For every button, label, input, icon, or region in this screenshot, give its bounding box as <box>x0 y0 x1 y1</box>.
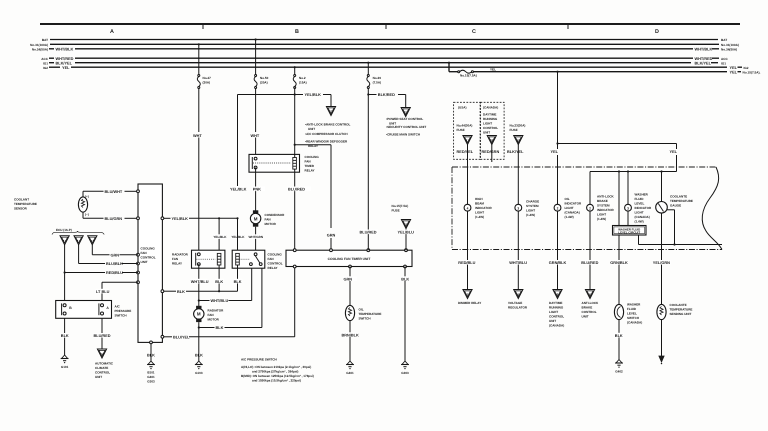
svg-text:WHT/BLU: WHT/BLU <box>191 280 209 284</box>
svg-text:FLUID: FLUID <box>627 307 637 311</box>
fuse No.29(7.5A) <box>367 62 381 89</box>
svg-text:BLK: BLK <box>147 354 155 358</box>
svg-text:CLIMATE: CLIMATE <box>95 366 108 370</box>
cooling fan timer relay box <box>249 154 300 172</box>
svg-text:G402: G402 <box>615 369 623 373</box>
svg-text:(20A): (20A) <box>203 81 211 85</box>
svg-text:YEL/BLK: YEL/BLK <box>172 217 189 221</box>
svg-text:•SECURITY CONTROL UNIT: •SECURITY CONTROL UNIT <box>386 125 426 129</box>
svg-text:3: 3 <box>627 206 629 210</box>
svg-text:CHARGE: CHARGE <box>526 199 539 203</box>
svg-text:COOLANT: COOLANT <box>14 198 29 202</box>
svg-text:BLK: BLK <box>61 334 69 338</box>
cooling fan control unit box <box>137 184 164 344</box>
svg-text:2: 2 <box>557 206 559 210</box>
svg-text:WHT/RED: WHT/RED <box>56 57 74 61</box>
svg-text:(CANADA): (CANADA) <box>483 105 498 109</box>
svg-text:DIMMER RELAY: DIMMER RELAY <box>458 301 481 305</box>
wire PNK timer relay to condenser fan motor <box>252 168 265 212</box>
svg-text:BLU/RED: BLU/RED <box>360 231 377 235</box>
svg-text:BLK/YEL: BLK/YEL <box>56 61 73 65</box>
svg-text:CONDENSOR: CONDENSOR <box>265 213 286 217</box>
wire WHT/BLU charge light to voltage regulator <box>509 211 528 298</box>
svg-text:GRN/BLK: GRN/BLK <box>549 261 567 265</box>
svg-text:YEL: YEL <box>62 66 70 70</box>
connector 11 <box>326 107 335 116</box>
wire YEL branch to gauge feed <box>558 144 678 172</box>
svg-text:(1.4W): (1.4W) <box>635 220 644 224</box>
wire GRN/BLK oil light to daytime running light control unit <box>549 211 568 298</box>
svg-text:A(HI,LO) :ON between 210kpa (2: A(HI,LO) :ON between 210kpa (2.1kg/cm² ,… <box>241 365 311 369</box>
svg-text:FAN: FAN <box>265 218 271 222</box>
svg-text:11: 11 <box>329 110 333 114</box>
svg-text:LIGHT: LIGHT <box>597 213 606 217</box>
svg-text:BLU/YEL: BLU/YEL <box>173 335 190 339</box>
svg-text:YEL: YEL <box>670 150 678 154</box>
svg-text:(1.4W): (1.4W) <box>565 215 574 219</box>
wire YEL to right edge <box>473 67 760 74</box>
dashed box (USA) daytime fuse <box>454 102 481 159</box>
svg-text:GRN: GRN <box>327 234 336 238</box>
wire GRN timer unit to oil temperature switch <box>343 267 357 306</box>
svg-text:GRN: GRN <box>344 277 353 281</box>
a/c pressure switch box <box>56 301 112 319</box>
svg-text:CONTROL: CONTROL <box>582 310 597 314</box>
svg-text:RADIATOR: RADIATOR <box>208 309 225 313</box>
washer fluid level circuit box <box>613 172 647 236</box>
svg-text:WHT/BLK: WHT/BLK <box>695 47 713 51</box>
svg-text:WHT: WHT <box>251 134 260 138</box>
svg-text:RELAY: RELAY <box>268 266 278 270</box>
svg-text:COOLING FAN TIMER UNIT: COOLING FAN TIMER UNIT <box>328 257 371 261</box>
bus ACC WHT/RED <box>41 57 728 61</box>
svg-text:BLU/GRN: BLU/GRN <box>105 217 123 221</box>
svg-text:FUSE: FUSE <box>457 128 465 132</box>
cooling fan control relay box <box>232 250 265 268</box>
header rule <box>40 23 740 25</box>
svg-text:RUNNING: RUNNING <box>483 117 498 121</box>
svg-text:LEVEL: LEVEL <box>635 202 645 206</box>
svg-text:BLK/YEL: BLK/YEL <box>695 61 712 65</box>
svg-text:INDICATOR: INDICATOR <box>635 206 652 210</box>
svg-text:GRN: GRN <box>111 253 120 257</box>
svg-text:No.23(30A): No.23(30A) <box>510 123 526 127</box>
svg-text:BLU/RED: BLU/RED <box>581 261 598 265</box>
label cooling fan control unit <box>141 247 156 265</box>
svg-text:No.15(7.5A): No.15(7.5A) <box>392 204 409 208</box>
fuse No.50(20A) <box>254 38 269 88</box>
svg-text:LEVEL: LEVEL <box>627 312 637 316</box>
svg-text:3: 3 <box>517 206 519 210</box>
svg-text:No.2: No.2 <box>299 76 306 80</box>
svg-text:G101: G101 <box>61 365 69 369</box>
svg-text:RELAY: RELAY <box>172 262 182 266</box>
wire WHT/BLU to control relay contact <box>199 268 252 303</box>
svg-text:TEMPERATURE: TEMPERATURE <box>14 202 37 206</box>
svg-text:RED/BLU: RED/BLU <box>458 261 475 265</box>
svg-text:15: 15 <box>404 223 408 227</box>
svg-text:B101: B101 <box>147 370 155 374</box>
svg-text:BLK/YEL: BLK/YEL <box>507 150 524 154</box>
svg-text:No.15(7.5A): No.15(7.5A) <box>460 74 477 78</box>
svg-text:TEMPERATURE: TEMPERATURE <box>359 312 382 316</box>
svg-text:BEAM: BEAM <box>475 202 484 206</box>
label coolant temperature sensor <box>14 198 37 211</box>
wire YEL/BLK horizontal <box>238 88 332 187</box>
svg-text:HIGH: HIGH <box>475 197 483 201</box>
svg-text:(1.4W): (1.4W) <box>475 215 484 219</box>
wire BLU/RED timer relay coil to timer unit <box>287 169 311 250</box>
svg-text:DAYTIME: DAYTIME <box>549 301 562 305</box>
svg-text:ANTI-LOCK: ANTI-LOCK <box>582 301 600 305</box>
svg-text:LEVEL CIRCUIT: LEVEL CIRCUIT <box>618 231 640 235</box>
ECU (16-P) connectors <box>52 228 104 245</box>
svg-text:COOLANTE: COOLANTE <box>670 194 687 198</box>
svg-text:COOLING: COOLING <box>268 253 283 257</box>
svg-text:2: 2 <box>589 206 591 210</box>
svg-text:BLK: BLK <box>177 290 185 294</box>
wire BLK to ground G103 <box>195 350 203 375</box>
svg-text:CONTROL: CONTROL <box>95 371 110 375</box>
svg-text:UNIT: UNIT <box>141 260 148 264</box>
svg-text:WHT/BLU: WHT/BLU <box>509 261 527 265</box>
svg-text:BLU/RED: BLU/RED <box>94 334 111 338</box>
svg-text:YEL: YEL <box>730 70 738 74</box>
svg-text:SENSOR: SENSOR <box>14 207 28 211</box>
charge system light <box>515 168 522 211</box>
svg-text:No.47: No.47 <box>203 76 212 80</box>
svg-text:WHT/BLU: WHT/BLU <box>211 299 229 303</box>
bus IG2 YEL <box>43 66 749 70</box>
wire BLK radiator relay coil down <box>215 265 224 292</box>
wire YEL/BLK long vertical to control relay coil <box>230 187 247 240</box>
svg-text:19: 19 <box>517 139 521 143</box>
svg-text:C: C <box>472 29 476 35</box>
svg-text:No.34(50A): No.34(50A) <box>721 47 737 51</box>
svg-text:RED/YEL: RED/YEL <box>457 150 474 154</box>
svg-text:(CANADA): (CANADA) <box>635 215 650 219</box>
svg-text:(15A): (15A) <box>299 81 307 85</box>
svg-text:MOTOR: MOTOR <box>265 222 277 226</box>
svg-text:•REAR WINDOW DEFOGGER: •REAR WINDOW DEFOGGER <box>305 139 348 143</box>
svg-text:G303: G303 <box>147 379 155 383</box>
svg-text:FUSE: FUSE <box>510 128 518 132</box>
svg-text:and 1550kpa (15.5kg/cm² , 220p: and 1550kpa (15.5kg/cm² , 220psi) <box>252 378 301 382</box>
svg-text:TEMPERATURE: TEMPERATURE <box>670 308 693 312</box>
svg-text:•CRUISE MAIN SWITCH: •CRUISE MAIN SWITCH <box>386 133 420 137</box>
svg-text:BLK: BLK <box>234 280 242 284</box>
svg-text:RUNNING: RUNNING <box>549 306 564 310</box>
svg-text:No.31(100A): No.31(100A) <box>30 43 48 47</box>
svg-text:BRAKE: BRAKE <box>597 199 608 203</box>
svg-text:CONTROL: CONTROL <box>141 256 156 260</box>
svg-text:COOLING: COOLING <box>141 247 156 251</box>
svg-text:TEMPERATURE: TEMPERATURE <box>670 199 693 203</box>
svg-text:WHT/RED: WHT/RED <box>695 57 713 61</box>
svg-text:LIGHT: LIGHT <box>526 208 535 212</box>
svg-text:FUSE: FUSE <box>392 208 400 212</box>
wire GRN corner to timer unit <box>295 145 336 251</box>
wire BLU/RED abs light to anti-lock brake control unit <box>581 211 600 298</box>
wire BLK washer switch to ground G402 <box>615 320 624 374</box>
svg-text:PNK: PNK <box>253 188 261 192</box>
svg-text:G303: G303 <box>401 371 409 375</box>
svg-text:BLK: BLK <box>216 326 224 330</box>
svg-text:(–): (–) <box>85 213 89 217</box>
load list: anti-lock brake control unit etc <box>305 123 351 148</box>
svg-text:UNIT: UNIT <box>308 127 315 131</box>
svg-text:LIGHT: LIGHT <box>565 206 574 210</box>
svg-text:SWITCH: SWITCH <box>115 314 127 318</box>
svg-text:A/C PRESSURE SWITCH: A/C PRESSURE SWITCH <box>241 358 277 362</box>
wire to chassis ground (sending unit) <box>659 320 664 365</box>
svg-text:LT BLU: LT BLU <box>96 290 110 294</box>
svg-text:UNIT: UNIT <box>95 375 102 379</box>
svg-text:COOLANTE: COOLANTE <box>670 303 687 307</box>
wire BLK control relay coil down <box>233 265 242 291</box>
svg-text:M: M <box>254 216 258 221</box>
svg-text:CONTROL: CONTROL <box>549 315 564 319</box>
tick C|D <box>567 24 569 29</box>
svg-text:LIGHT: LIGHT <box>549 310 558 314</box>
svg-text:A/C: A/C <box>115 305 121 309</box>
svg-text:and 2750kpa (27kg/cm² , 384psi: and 2750kpa (27kg/cm² , 384psi) <box>252 369 298 373</box>
svg-text:G401: G401 <box>147 375 155 379</box>
svg-text:GRN/BLK: GRN/BLK <box>610 261 628 265</box>
svg-text:IG2: IG2 <box>43 66 48 70</box>
svg-text:•ANTI-LOCK BRAKE CONTROL: •ANTI-LOCK BRAKE CONTROL <box>305 123 351 127</box>
fuse triangle (USA) <box>457 136 474 169</box>
svg-text:INDICATOR: INDICATOR <box>475 206 492 210</box>
branch wire to fuse No.15 <box>448 62 458 72</box>
wire BLK motor to control relay contact <box>198 268 262 350</box>
fuse triangle (CANADA) <box>482 136 500 163</box>
wire GRN/BLK washer circuit to level switch <box>610 235 629 305</box>
instrument cluster boundary <box>452 167 722 250</box>
svg-text:LIGHT: LIGHT <box>635 211 644 215</box>
bus No.31(100A) <box>30 43 739 47</box>
svg-text:UNIT: UNIT <box>549 319 556 323</box>
bus IG1 BLK/YEL <box>43 61 726 65</box>
tick A|B <box>202 24 204 29</box>
label radiator fan motor <box>208 309 225 322</box>
washer fluid level switch <box>614 304 623 319</box>
coolante temperature gauge <box>656 172 668 214</box>
oil indicator light <box>554 204 561 211</box>
wire GRN ecu to control unit <box>92 245 138 257</box>
svg-text:SYSTEM: SYSTEM <box>526 204 539 208</box>
svg-text:FAN: FAN <box>305 160 311 164</box>
svg-text:BRN/BLK: BRN/BLK <box>342 333 360 337</box>
svg-text:FAN: FAN <box>172 257 178 261</box>
cooling fan timer unit box <box>286 249 412 268</box>
svg-text:BLK/RED: BLK/RED <box>378 93 395 97</box>
svg-text:No.15(7.5A).: No.15(7.5A). <box>743 70 761 74</box>
wire WHT fuse47 to radiator fan relay <box>193 89 202 251</box>
svg-text:IG1: IG1 <box>43 61 48 65</box>
svg-text:(7.5A): (7.5A) <box>373 81 381 85</box>
svg-text:SWITCH: SWITCH <box>627 316 639 320</box>
svg-text:SENDING UNIT: SENDING UNIT <box>670 312 692 316</box>
svg-text:•POWER SEAT CONTROL: •POWER SEAT CONTROL <box>386 117 423 121</box>
svg-text:BLU/BLK: BLU/BLK <box>106 262 123 266</box>
svg-text:17: 17 <box>77 239 81 243</box>
svg-text:REGULATOR: REGULATOR <box>508 306 528 310</box>
wire BLK control unit to grounds <box>147 344 155 384</box>
svg-text:ANTI-LOCK: ANTI-LOCK <box>597 195 615 199</box>
svg-text:BAT: BAT <box>42 38 48 42</box>
wire BLK/RED branch <box>367 93 406 107</box>
svg-text:YEL/BLK: YEL/BLK <box>305 93 322 97</box>
svg-text:SYSTEM: SYSTEM <box>597 204 610 208</box>
wire YEL/GRN gauge to sending unit <box>653 213 672 305</box>
wire BRN/BLK to ground G401 <box>341 321 359 375</box>
svg-text:WASHER: WASHER <box>627 303 641 307</box>
svg-text:INDICATOR: INDICATOR <box>597 208 614 212</box>
condenser fan motor <box>250 210 260 226</box>
svg-text:VOLTAGE: VOLTAGE <box>508 301 522 305</box>
wire WHT/BLU radiator relay switch down <box>191 264 209 307</box>
svg-text:YEL/BLU: YEL/BLU <box>398 231 415 235</box>
svg-text:PRESSURE: PRESSURE <box>115 309 132 313</box>
bus BAT <box>42 38 727 42</box>
svg-text:TIMER: TIMER <box>305 164 315 168</box>
svg-text:FAN: FAN <box>208 313 214 317</box>
svg-text:CONTROL: CONTROL <box>483 126 498 130</box>
coolant temperature sensor <box>78 195 88 217</box>
wire WHT fuse50 to timer relay <box>251 89 260 155</box>
svg-text:WHT/GRN: WHT/GRN <box>249 235 264 239</box>
svg-text:(1.4W): (1.4W) <box>597 217 606 221</box>
wire YEL/BLU to timer unit <box>397 229 416 251</box>
svg-text:BRAKE: BRAKE <box>582 306 593 310</box>
wire BLK ground bus from control unit <box>162 290 237 294</box>
label oil temperature switch <box>359 308 382 321</box>
svg-text:D: D <box>655 29 659 35</box>
svg-text:RED/GRN: RED/GRN <box>482 150 500 154</box>
svg-text:No.44(30A): No.44(30A) <box>457 123 473 127</box>
bus No.34(50A) WHT/BLK <box>32 47 737 51</box>
svg-text:COOLING: COOLING <box>305 155 320 159</box>
svg-text:GAUGE: GAUGE <box>670 203 681 207</box>
wire fuse2 down to junction/coil <box>294 95 296 158</box>
svg-text:FAN: FAN <box>141 251 147 255</box>
svg-text:SWITCH: SWITCH <box>359 317 371 321</box>
svg-text:DAYTIME: DAYTIME <box>483 112 496 116</box>
label a/c pressure switch <box>115 305 132 318</box>
svg-text:(1.4W): (1.4W) <box>526 213 535 217</box>
svg-text:UNIT: UNIT <box>483 130 490 134</box>
svg-text:YEL/BLK: YEL/BLK <box>213 235 227 239</box>
radiator fan relay box <box>192 250 225 268</box>
svg-text:YEL: YEL <box>551 150 559 154</box>
svg-text:YEL/BLK: YEL/BLK <box>231 235 245 239</box>
fuse No.15(7.5A) connector triangle <box>392 204 411 229</box>
svg-text:WASHER: WASHER <box>635 193 649 197</box>
svg-text:YEL/GRN: YEL/GRN <box>653 261 670 265</box>
svg-text:BLK: BLK <box>615 334 623 338</box>
label radiator fan relay <box>172 253 189 266</box>
label condenser fan motor <box>265 213 286 226</box>
svg-text:WHT: WHT <box>193 134 202 138</box>
svg-text:A: A <box>110 29 114 35</box>
svg-text:(CANADA): (CANADA) <box>565 211 580 215</box>
svg-text:FAN: FAN <box>268 257 274 261</box>
svg-text:IG1: IG1 <box>721 61 726 65</box>
wire LT BLU control unit to pressure switch A <box>96 282 139 300</box>
svg-text:21: 21 <box>404 111 408 115</box>
wire RED/BLU ecu to control unit <box>64 245 139 318</box>
svg-text:4: 4 <box>467 206 469 210</box>
svg-text:ECU (16-P): ECU (16-P) <box>56 228 72 232</box>
label cooling fan control relay <box>268 253 283 271</box>
svg-text:(USA): (USA) <box>458 105 466 109</box>
svg-text:LIGHT: LIGHT <box>483 121 492 125</box>
svg-text:RELAY: RELAY <box>305 169 315 173</box>
wire control relay coil down from YEL/BLK vertical <box>237 218 239 253</box>
svg-text:17: 17 <box>466 139 470 143</box>
wire BLU/RED pressure switch A to climate control <box>93 318 111 358</box>
svg-text:20: 20 <box>490 139 494 143</box>
fuse No.15(7.5A) inline <box>458 70 477 77</box>
wire BLU/GRN sensor to control unit <box>83 212 138 221</box>
svg-text:(20A): (20A) <box>260 81 268 85</box>
svg-text:BLU/WHT: BLU/WHT <box>105 190 123 194</box>
svg-text:BAT: BAT <box>721 38 727 42</box>
svg-text:WHT/BLK: WHT/BLK <box>56 47 74 51</box>
dashed box (CANADA) daytime running light control unit <box>481 102 505 159</box>
svg-text:(CANADA): (CANADA) <box>549 324 564 328</box>
wire BLU/WHT sensor to control unit <box>83 190 138 197</box>
svg-text:YEL: YEL <box>490 67 496 71</box>
svg-text:BLU/RED: BLU/RED <box>288 188 305 192</box>
note a/c pressure switch thresholds <box>241 358 314 383</box>
fuse No.23(30A) <box>507 123 525 168</box>
high beam indicator light <box>464 168 471 211</box>
wire BLK timer unit to ground G303 <box>401 267 410 375</box>
wire BLK pressure switch B to ground G101 <box>61 318 70 369</box>
coolante temperature sending unit <box>657 304 666 319</box>
anti-lock brake system indicator light <box>587 204 594 211</box>
wire YEL/BLK from cooling fan control unit <box>162 217 238 221</box>
radiator fan motor <box>194 306 204 322</box>
wire to connector 11 <box>330 95 332 107</box>
wire BLU/BLK ecu to control unit <box>79 245 138 266</box>
svg-text:RADIATOR: RADIATOR <box>172 253 189 257</box>
svg-text:INDICATOR: INDICATOR <box>565 202 582 206</box>
svg-text:(CANADA): (CANADA) <box>627 321 642 325</box>
svg-text:LIGHT: LIGHT <box>475 211 484 215</box>
svg-text:IG2: IG2 <box>744 66 749 70</box>
svg-text:BLK: BLK <box>401 277 409 281</box>
wire WHT/GRN motor to control relay <box>248 227 263 255</box>
svg-text:No.50: No.50 <box>260 76 269 80</box>
wire BLU/YEL control unit to timer unit <box>162 267 294 340</box>
label automatic climate control unit <box>95 362 114 380</box>
wire BLU/RED fuse29 to timer unit <box>359 89 378 251</box>
svg-text:No.31(100A): No.31(100A) <box>721 43 739 47</box>
fuse No.2(15A) <box>293 66 306 88</box>
svg-text:No.34(50A): No.34(50A) <box>32 47 48 51</box>
oil temperature switch <box>345 305 354 320</box>
svg-text:ACC: ACC <box>721 57 728 61</box>
wire gauge to washer circuit output line <box>639 210 723 246</box>
svg-text:FLUID: FLUID <box>635 197 645 201</box>
svg-text:UNIT: UNIT <box>582 315 589 319</box>
svg-text:No.29: No.29 <box>373 76 382 80</box>
svg-text:MOTOR: MOTOR <box>208 318 220 322</box>
svg-text:ACC: ACC <box>41 57 48 61</box>
